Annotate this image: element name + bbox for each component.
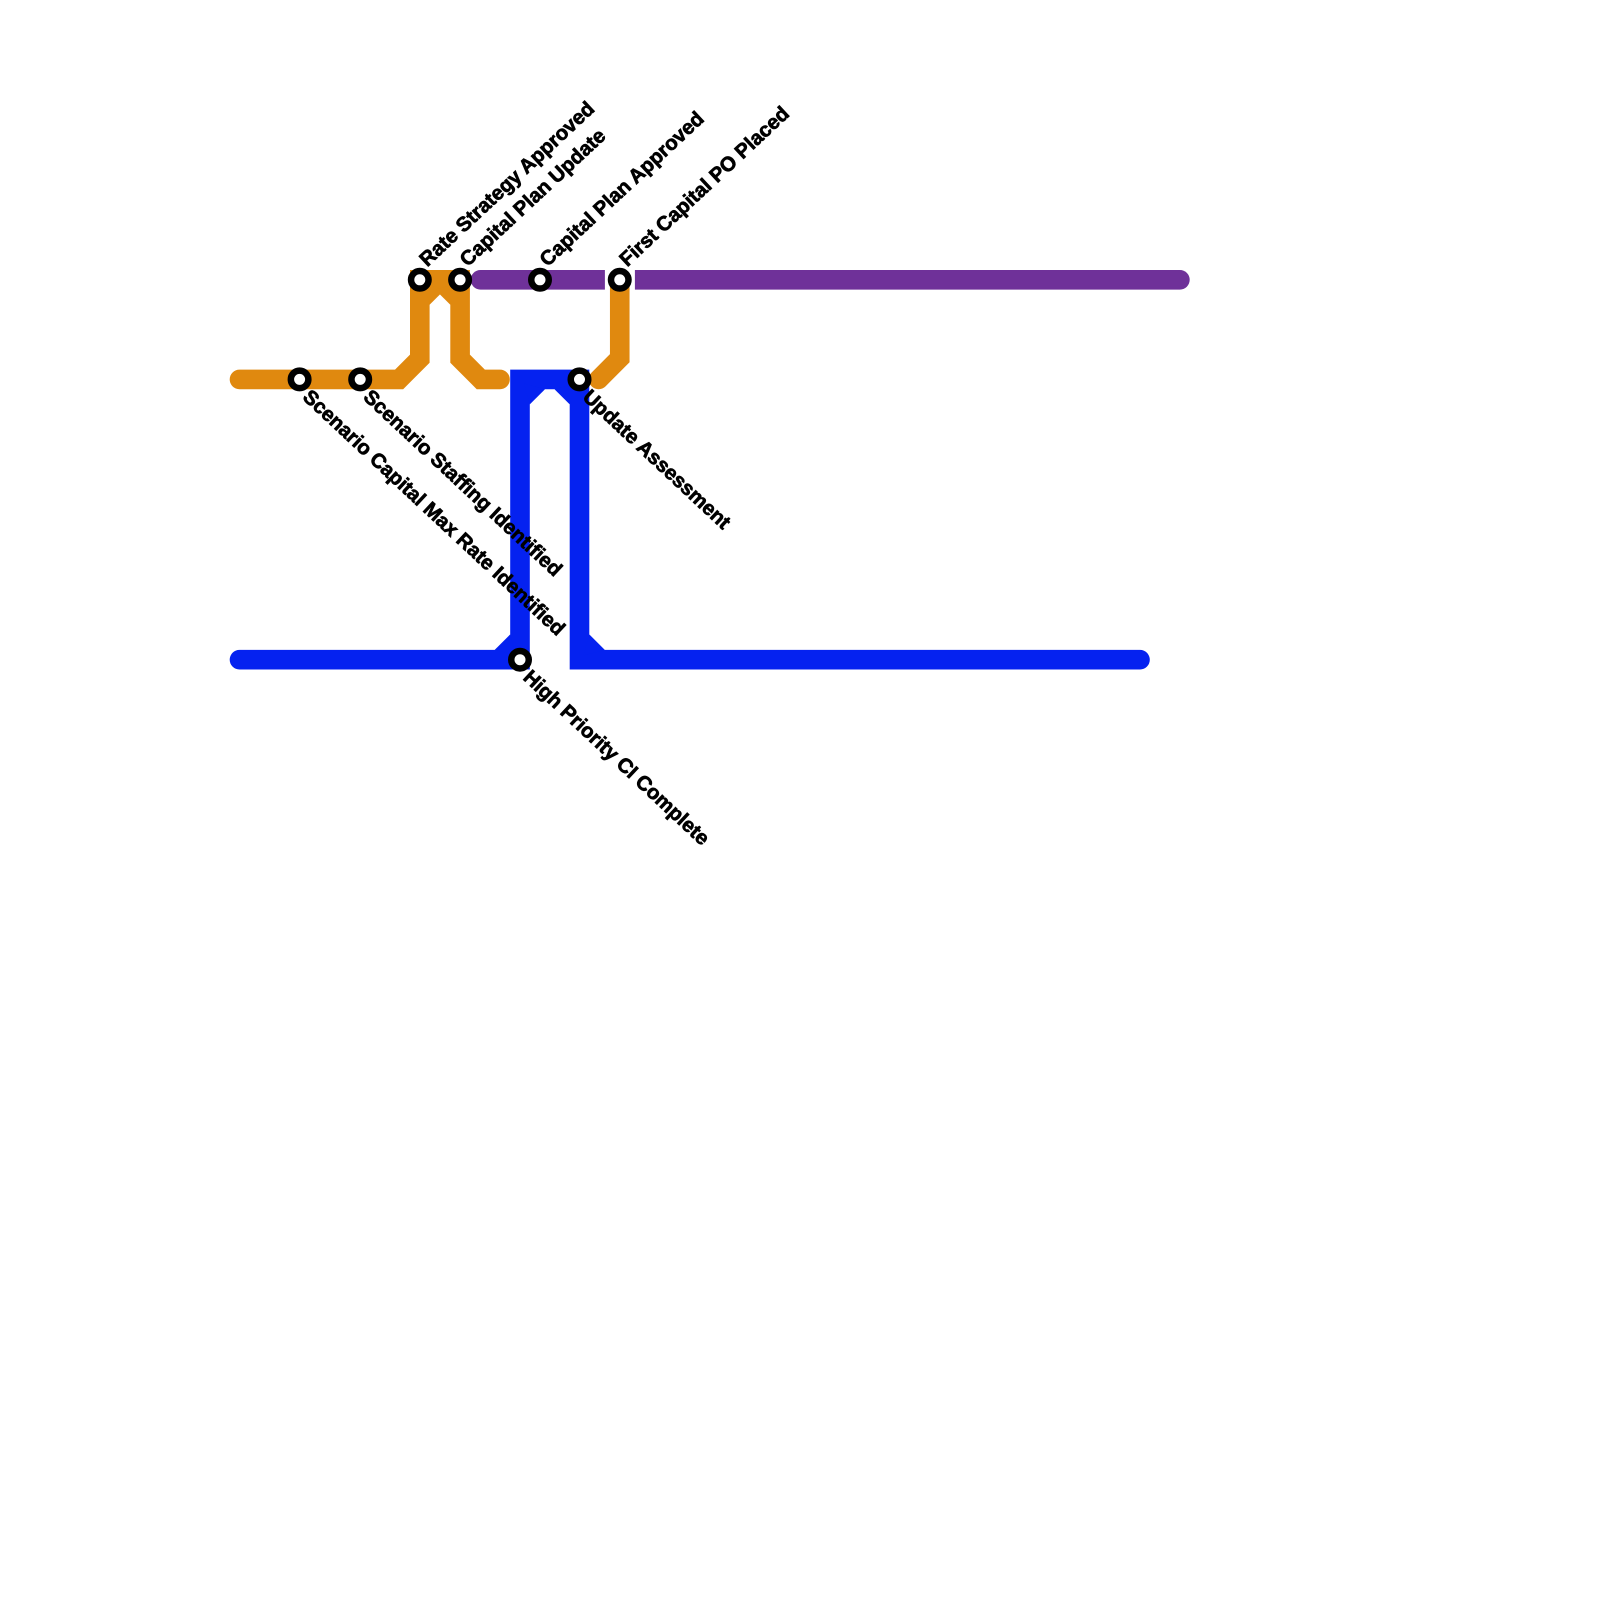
station Capital Plan Update — [451, 271, 469, 289]
orange line main segment (left horizontal, two risers to top row, back down) — [240, 280, 501, 380]
orange inner chamfer at Rate Strategy Approved corner — [424, 284, 445, 305]
orange line segment from Update Assessment up to First Capital PO Placed — [599, 280, 620, 380]
blue outer chamfer at bottom-left corner of hairpin — [495, 634, 516, 655]
station Scenario Staffing Identified — [351, 371, 369, 389]
blue inner chamfer at hairpin top-left corner — [524, 383, 545, 404]
blue line (bottom horizontal route with hairpin up to Update Assessment) — [240, 379, 1141, 659]
orange inner chamfer at Capital Plan Update corner — [435, 284, 456, 305]
station Capital Plan Approved — [531, 271, 549, 289]
station High Priority CI Complete — [511, 651, 529, 669]
purple line (top horizontal route) — [481, 270, 1180, 290]
blue outer chamfer at bottom-right corner of hairpin — [584, 634, 605, 655]
station First Capital PO Placed — [611, 271, 629, 289]
white gap in purple line at First Capital PO Placed interchange — [605, 267, 635, 293]
station Scenario Capital Max Rate Identified — [291, 371, 309, 389]
station Rate Strategy Approved — [411, 271, 429, 289]
station Update Assessment — [571, 371, 589, 389]
blue inner chamfer at hairpin top-right corner — [555, 383, 576, 404]
